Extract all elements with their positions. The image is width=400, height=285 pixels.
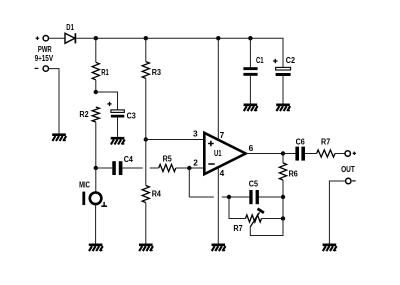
- wire C1 to ground: [249, 76, 251, 104]
- ground (C2): [276, 104, 290, 112]
- label - (PWR negative): [35, 67, 39, 69]
- wire pin3 node down to R4: [145, 140, 147, 186]
- resistor R7 (output): [317, 150, 335, 157]
- label + (C2 polarity): [273, 59, 277, 63]
- capacitor C5: [249, 190, 259, 204]
- svg-text:C5: C5: [249, 180, 259, 189]
- trimmer R7 element: [246, 215, 262, 222]
- svg-text:3: 3: [193, 129, 198, 138]
- wire C6 to R7: [305, 153, 317, 155]
- node OUT- terminal: [346, 178, 351, 183]
- wire pin4 to ground: [217, 167, 219, 243]
- microphone MIC: [82, 192, 107, 207]
- wire top supply rail: [76, 38, 283, 67]
- wire C4 to crossing gap: [122, 167, 142, 169]
- node PWR- terminal: [43, 66, 48, 71]
- wire pin7 to rail: [217, 38, 219, 140]
- junction rail/pin7: [216, 36, 220, 40]
- wire rail to R3: [145, 38, 147, 61]
- wire pin2 node down: [188, 168, 190, 197]
- svg-text:PWR: PWR: [38, 45, 52, 54]
- wire to C5: [229, 196, 249, 198]
- ground (U1 pin4): [212, 244, 226, 252]
- wire trimmer to right junction: [262, 218, 284, 220]
- resistor R1: [92, 62, 99, 80]
- label + (U1 non-inverting): [208, 141, 214, 147]
- ground (C3): [111, 137, 125, 145]
- svg-text:R1: R1: [101, 68, 109, 77]
- node PWR+ terminal: [43, 36, 48, 41]
- svg-text:2: 2: [193, 158, 198, 167]
- svg-text:U1: U1: [214, 149, 222, 158]
- ground (R4): [139, 244, 153, 252]
- label + (C3 polarity): [107, 102, 111, 106]
- node OUT+ terminal: [345, 151, 350, 156]
- wire R5 to op-amp -input: [176, 167, 204, 169]
- capacitor C3 (electrolytic): [111, 110, 124, 118]
- node R1/R2/C3 junction: [94, 90, 98, 94]
- svg-text:C2: C2: [286, 56, 296, 65]
- wire pin6 output: [246, 153, 283, 155]
- resistor R3: [142, 62, 149, 79]
- wire feedback left segment: [189, 196, 214, 198]
- wire output node to R6: [282, 154, 284, 164]
- svg-text:9÷15V: 9÷15V: [35, 54, 54, 63]
- label - (OUT): [352, 180, 355, 182]
- ground (MIC): [89, 244, 103, 252]
- node trimmer/R6-line junction: [281, 216, 285, 220]
- diode D1: [65, 33, 75, 43]
- node pin2/feedback junction: [187, 166, 191, 170]
- label - (U1 inverting): [208, 163, 214, 165]
- junction rail/R1: [94, 36, 98, 40]
- resistor R2: [92, 107, 99, 122]
- svg-text:R6: R6: [289, 169, 299, 178]
- capacitor C2 (electrolytic): [276, 67, 291, 76]
- capacitor C4: [112, 161, 122, 175]
- resistor R5: [159, 164, 176, 171]
- svg-text:R7: R7: [321, 137, 331, 146]
- wire R7 to OUT+: [335, 153, 345, 155]
- ground (OUT-): [323, 244, 337, 252]
- node R3/R4/pin3 junction: [144, 137, 148, 141]
- svg-text:R5: R5: [163, 154, 173, 163]
- wire PWR+ to D1 anode: [49, 37, 65, 39]
- wire feedback right of crossing: [222, 196, 229, 198]
- junction rail/C1: [248, 36, 252, 40]
- wire rail to C1: [249, 38, 251, 67]
- wire MIC node to C4: [96, 167, 113, 169]
- wire trimmer wiper loop: [250, 219, 283, 236]
- svg-text:C6: C6: [296, 137, 306, 146]
- wire OUT- to ground: [329, 181, 345, 244]
- resistor R6: [279, 163, 286, 180]
- junction rail/R3: [144, 36, 148, 40]
- label + (PWR positive): [36, 36, 40, 40]
- wire MIC to ground: [95, 204, 97, 243]
- trimmer R7 wiper arrow: [250, 209, 264, 227]
- capacitor C1: [243, 67, 257, 76]
- svg-text:D1: D1: [66, 23, 74, 32]
- svg-text:C3: C3: [127, 112, 137, 121]
- wire PWR- to ground: [49, 69, 59, 134]
- ground (PWR-): [52, 133, 66, 141]
- wire R6 to feedback node: [282, 180, 284, 197]
- wire crossing gap to R5: [150, 167, 159, 169]
- svg-text:C4: C4: [124, 155, 134, 164]
- svg-text:4: 4: [220, 169, 225, 178]
- node C5/R7 left junction: [227, 195, 231, 199]
- svg-text:MIC: MIC: [79, 180, 90, 189]
- svg-text:C1: C1: [256, 56, 264, 65]
- svg-text:R3: R3: [152, 68, 162, 77]
- wire left junction down to trimmer: [229, 197, 246, 219]
- wire rail to R1: [95, 38, 97, 62]
- wire R1 to node R1R2: [95, 80, 97, 92]
- wire R3 to pin3 node: [145, 78, 147, 139]
- wire pin3 node to op-amp +input: [146, 139, 204, 141]
- node feedback/C5 junction: [281, 195, 285, 199]
- svg-text:7: 7: [220, 131, 225, 140]
- svg-text:OUT: OUT: [341, 165, 355, 174]
- node output junction: [281, 151, 285, 155]
- capacitor C6: [295, 147, 305, 161]
- svg-text:6: 6: [249, 144, 254, 153]
- resistor R4: [142, 186, 149, 203]
- wire output node to C6: [283, 153, 295, 155]
- ground (C1): [244, 104, 258, 112]
- svg-text:R7: R7: [233, 224, 243, 233]
- wire node to MIC: [95, 168, 97, 192]
- wire R4 to ground: [145, 203, 147, 244]
- svg-text:R2: R2: [79, 110, 89, 119]
- wire C5 to feedback node: [259, 196, 283, 198]
- wire node to C3: [96, 92, 118, 110]
- wire C3 to ground: [117, 118, 119, 137]
- node R2/C4/MIC junction: [94, 166, 98, 170]
- op-amp U1: [204, 133, 245, 174]
- wire R2 to C4 node: [95, 122, 97, 168]
- label + (OUT): [353, 152, 356, 155]
- wire C2 to ground: [282, 76, 284, 104]
- wire feedback node down to trimmer junction: [282, 197, 284, 219]
- svg-text:R4: R4: [152, 189, 162, 198]
